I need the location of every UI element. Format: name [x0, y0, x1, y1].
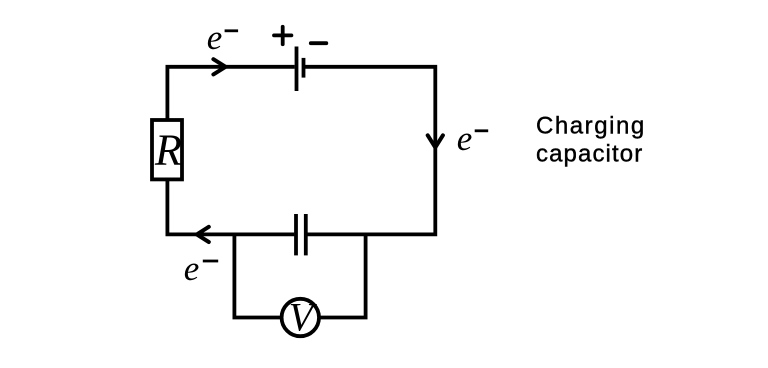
svg-text:e: e	[207, 18, 223, 57]
wire voltmeter left leg	[234, 234, 281, 317]
voltmeter V circle	[282, 299, 319, 336]
electron label e- bottom-left	[184, 249, 218, 288]
wire voltmeter right leg	[319, 234, 366, 317]
electron label e- right	[457, 119, 488, 158]
svg-text:e: e	[184, 249, 200, 288]
wire top-left: battery to top-left corner to resistor top	[167, 67, 294, 120]
electron label e- top	[207, 18, 238, 57]
resistor R box	[152, 120, 182, 179]
svg-text:capacitor: capacitor	[536, 140, 643, 167]
wire bottom-left: resistor bottom to bottom-left corner to capacitor left plate	[167, 179, 294, 234]
wire right: capacitor right plate to bottom-right corner, up to top-right corner, left to battery short plate	[305, 67, 436, 235]
battery minus label	[311, 41, 327, 45]
battery B1 short plate (-)	[302, 58, 306, 78]
svg-text:Charging: Charging	[536, 113, 646, 140]
current arrow right (down-pointing chevron)	[428, 135, 443, 147]
current arrow bottom (left-pointing chevron)	[197, 227, 209, 242]
current arrow top (right-pointing chevron)	[213, 59, 225, 74]
svg-text:R: R	[154, 125, 182, 174]
svg-text:e: e	[457, 119, 473, 158]
capacitor C right plate	[304, 214, 308, 255]
battery plus label	[274, 27, 291, 44]
battery B1 long plate (+)	[295, 47, 299, 92]
capacitor C left plate	[294, 214, 298, 255]
